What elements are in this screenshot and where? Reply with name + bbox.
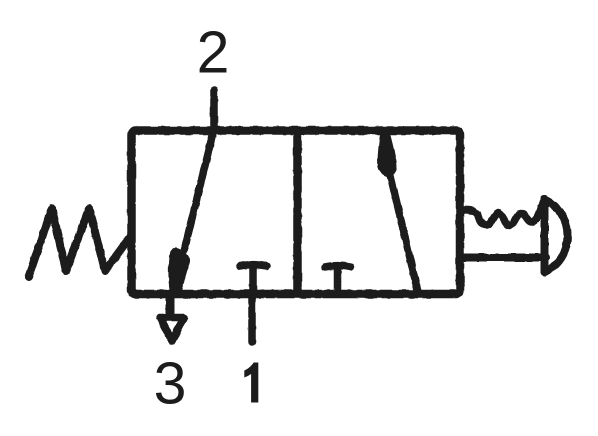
blocked port 1 stem (left position) [249,265,257,293]
arrowhead to port 3 [170,249,189,291]
label 1 [244,363,258,403]
push-button actuator bottom line [461,254,546,262]
wire: left flow path 2-3 [184,131,214,251]
blocked port 1 crossbar (left position) [240,265,267,266]
push-button mushroom head arc [545,200,568,273]
blocked port 3 stem (right position) [334,266,342,293]
push-button actuator top wavy line [461,200,545,226]
svg-text:3: 3 [154,351,187,417]
exhaust triangle [160,318,184,342]
push-button face [541,200,549,273]
port 3 exhaust stem [166,294,175,313]
wire: right flow path 1-2 [390,174,418,292]
port 1 stub [248,294,256,342]
arrowhead to port 2 (right position) [379,132,396,176]
port 2 stub [210,90,218,130]
valve body frame [132,131,461,295]
blocked port 3 crossbar (right position) [325,266,351,267]
svg-text:2: 2 [197,20,230,86]
spring return actuator [29,209,131,278]
position divider [293,131,302,293]
